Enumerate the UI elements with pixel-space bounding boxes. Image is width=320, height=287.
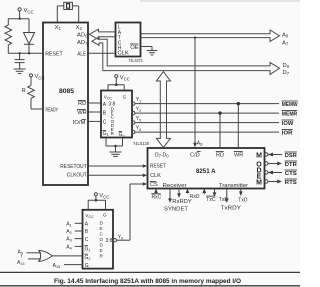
svg-text:Receiver: Receiver bbox=[163, 183, 187, 189]
svg-text:8085: 8085 bbox=[59, 88, 75, 95]
svg-text:RD: RD bbox=[216, 152, 224, 158]
svg-text:IOW: IOW bbox=[282, 121, 294, 127]
svg-text:SYNDET: SYNDET bbox=[164, 207, 188, 213]
svg-text:C: C bbox=[85, 237, 89, 243]
svg-text:OE: OE bbox=[130, 45, 139, 51]
svg-text:D0: D0 bbox=[283, 63, 290, 69]
svg-text:WR: WR bbox=[234, 152, 243, 158]
svg-text:8251 A: 8251 A bbox=[196, 168, 216, 175]
svg-text:CS: CS bbox=[150, 182, 158, 188]
svg-text:Transmitter: Transmitter bbox=[219, 183, 248, 189]
svg-text:ALE: ALE bbox=[77, 52, 86, 58]
svg-text:A0: A0 bbox=[282, 32, 289, 38]
svg-text:VCC: VCC bbox=[24, 8, 34, 14]
svg-text:3:8: 3:8 bbox=[106, 238, 113, 244]
svg-text:IO/M: IO/M bbox=[73, 120, 86, 126]
svg-text:TxRDY: TxRDY bbox=[221, 206, 242, 212]
svg-text:A0: A0 bbox=[197, 141, 203, 147]
svg-text:X2: X2 bbox=[76, 25, 83, 31]
svg-text:RxRDY: RxRDY bbox=[172, 199, 192, 205]
svg-text:RESET: RESET bbox=[45, 52, 63, 58]
svg-text:MEMW: MEMW bbox=[282, 102, 298, 108]
svg-text:IOR: IOR bbox=[282, 130, 293, 136]
svg-text:G: G bbox=[103, 213, 107, 218]
svg-text:O: O bbox=[100, 237, 104, 242]
svg-text:WR: WR bbox=[77, 110, 87, 116]
svg-text:DTR: DTR bbox=[285, 162, 297, 168]
svg-text:CLK: CLK bbox=[150, 173, 161, 179]
svg-text:74LS138: 74LS138 bbox=[133, 141, 149, 147]
svg-text:Fig. 14.45 Interfacing 8251A w: Fig. 14.45 Interfacing 8251A with 8085 i… bbox=[54, 278, 241, 285]
svg-text:D7: D7 bbox=[283, 70, 290, 76]
svg-text:RxC: RxC bbox=[152, 195, 162, 201]
svg-text:AD0: AD0 bbox=[77, 32, 88, 38]
svg-text:AD7: AD7 bbox=[77, 40, 88, 46]
svg-text:CLKOUT: CLKOUT bbox=[67, 173, 87, 179]
svg-text:G: G bbox=[85, 263, 89, 269]
svg-text:VCC: VCC bbox=[99, 193, 109, 199]
svg-text:X1: X1 bbox=[55, 25, 62, 31]
svg-text:G: G bbox=[123, 94, 127, 99]
svg-text:READY: READY bbox=[46, 107, 59, 113]
svg-text:TxC: TxC bbox=[206, 197, 216, 203]
svg-text:E: E bbox=[100, 226, 103, 231]
svg-text:RESET: RESET bbox=[150, 163, 166, 169]
svg-text:A7: A7 bbox=[282, 40, 289, 46]
svg-text:DSR: DSR bbox=[285, 153, 297, 159]
svg-text:TxD: TxD bbox=[238, 198, 248, 204]
svg-text:E: E bbox=[100, 248, 103, 253]
svg-text:VCC: VCC bbox=[35, 74, 45, 80]
svg-text:C: C bbox=[103, 120, 107, 126]
svg-text:CLK: CLK bbox=[118, 51, 129, 57]
svg-text:D7-D0: D7-D0 bbox=[155, 152, 169, 158]
svg-text:M: M bbox=[256, 153, 262, 160]
svg-text:RESETOUT: RESETOUT bbox=[60, 164, 87, 170]
svg-text:RTS: RTS bbox=[285, 180, 298, 186]
svg-text:M: M bbox=[256, 180, 262, 187]
svg-text:74LS373: 74LS373 bbox=[129, 58, 143, 64]
svg-text:C/D: C/D bbox=[190, 152, 200, 158]
svg-text:CTS: CTS bbox=[285, 171, 298, 177]
svg-text:RD: RD bbox=[78, 101, 86, 107]
svg-text:MEMR: MEMR bbox=[282, 111, 298, 117]
svg-text:R: R bbox=[22, 88, 26, 94]
svg-text:VCC: VCC bbox=[120, 75, 130, 81]
svg-text:RxD: RxD bbox=[190, 194, 200, 200]
